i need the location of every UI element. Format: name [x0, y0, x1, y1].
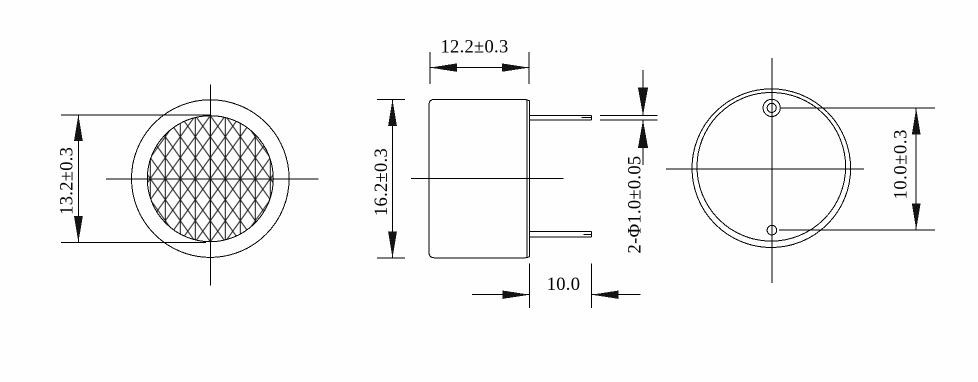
top pin hole ring	[763, 99, 780, 116]
horizontal centerline	[106, 178, 319, 180]
extension line top (13.2)	[61, 114, 210, 116]
dimension line left segment	[472, 294, 530, 296]
svg-text:13.2±0.3: 13.2±0.3	[58, 147, 78, 215]
dimension line 16.2	[392, 99, 394, 258]
horizontal centerline	[411, 177, 564, 179]
arrowhead up 16.2	[388, 99, 397, 126]
svg-text:10.0±0.3: 10.0±0.3	[892, 129, 912, 199]
extension line bottom (13.2)	[61, 241, 206, 243]
arrowhead up (pin dia)	[638, 120, 648, 148]
top pin hole	[767, 103, 776, 112]
dimension line 13.2	[77, 115, 79, 242]
horizontal centerline	[666, 168, 864, 170]
dimension line 10.0 pitch	[915, 108, 917, 230]
svg-text:12.2±0.3: 12.2±0.3	[440, 38, 508, 58]
mesh circle fill	[148, 116, 274, 242]
inner rim circle	[697, 93, 846, 242]
dia dim vertical line lower	[642, 120, 644, 165]
vertical centerline	[771, 58, 773, 283]
arrowhead right 12.2	[502, 63, 529, 71]
lower pin notch	[583, 233, 591, 235]
arrowhead down pitch	[912, 204, 921, 230]
rear flange line	[529, 101, 531, 257]
dimension line right segment	[592, 294, 641, 296]
outer case circle	[132, 100, 290, 258]
arrowhead up 13.2	[74, 115, 83, 141]
pin projection lines (for dia dim)	[600, 114, 658, 116]
arrowhead up pitch	[912, 108, 921, 134]
dia dim vertical line upper	[642, 70, 644, 115]
left dimension 16.2: extension lines	[377, 98, 405, 100]
vertical centerline	[209, 85, 211, 286]
arrowhead left-pointing 10.0	[592, 291, 619, 299]
outer circle	[692, 89, 851, 248]
upper pin	[530, 114, 592, 116]
extension line bottom (10.0 pitch)	[779, 229, 935, 231]
arrowhead down (pin dia)	[638, 88, 648, 116]
arrowhead right-pointing 10.0	[502, 291, 529, 299]
arrowhead down 16.2	[388, 232, 397, 259]
mesh circle outline	[147, 116, 273, 242]
lower pin	[530, 231, 592, 233]
arrowhead down 13.2	[74, 216, 83, 242]
svg-text:16.2±0.3: 16.2±0.3	[372, 148, 392, 216]
svg-text:10.0: 10.0	[547, 275, 581, 295]
dimension line 12.2	[430, 67, 529, 69]
upper pin notch	[581, 117, 591, 119]
svg-text:2-Φ1.0±0.05: 2-Φ1.0±0.05	[625, 156, 645, 254]
bottom pin hole	[767, 225, 777, 235]
bottom dimension 10.0: extension lines	[529, 263, 531, 308]
body outline	[429, 99, 527, 257]
arrowhead left 12.2	[430, 63, 457, 71]
extension line top (10.0 pitch)	[780, 107, 935, 109]
top dimension 12.2: extension lines	[429, 52, 431, 84]
